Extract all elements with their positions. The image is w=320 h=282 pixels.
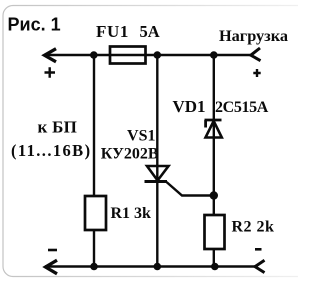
svg-text:2С515А: 2С515А <box>215 99 269 116</box>
node top-left junction <box>90 51 98 59</box>
label plus left <box>45 67 56 77</box>
svg-text:R1 3k: R1 3k <box>111 205 152 222</box>
svg-text:КУ202В: КУ202В <box>101 146 159 163</box>
node bottom-middle junction <box>154 263 162 271</box>
svg-text:Нагрузка: Нагрузка <box>219 26 288 45</box>
fuse FU1 <box>110 47 146 64</box>
zener diode VD1 symbol <box>205 120 222 138</box>
node gate junction <box>210 191 218 199</box>
svg-text:Рис. 1: Рис. 1 <box>8 15 61 35</box>
wire bottom bus <box>45 265 255 268</box>
node top-middle junction <box>154 51 162 59</box>
wire left branch upper <box>93 55 95 196</box>
wire gate lead <box>167 182 213 196</box>
wire right branch lower <box>213 249 215 267</box>
resistor R1 <box>85 196 106 230</box>
node top-right junction <box>210 51 218 59</box>
terminal fork plus output <box>251 48 261 61</box>
terminal fork minus output <box>255 260 265 272</box>
svg-text:(11...16В): (11...16В) <box>11 141 91 160</box>
label plus right <box>253 69 260 77</box>
wire middle branch <box>156 55 158 267</box>
wire top bus <box>44 54 251 57</box>
terminal arrow plus input <box>45 49 57 62</box>
svg-text:VD1: VD1 <box>173 97 206 116</box>
wire right branch upper <box>213 55 215 215</box>
svg-text:R2 2k: R2 2k <box>232 219 275 236</box>
wire left branch lower <box>93 230 95 267</box>
svg-text:FU1: FU1 <box>96 22 129 41</box>
terminal arrow minus input <box>46 260 58 274</box>
svg-text:VS1: VS1 <box>127 128 155 145</box>
node bottom-right junction <box>211 263 219 271</box>
thyristor VS1 symbol <box>145 166 169 182</box>
resistor R2 <box>205 215 225 249</box>
svg-text:к БП: к БП <box>38 118 78 137</box>
svg-text:5A: 5A <box>140 22 160 41</box>
node bottom-left junction <box>90 263 98 271</box>
label minus right <box>255 248 262 251</box>
label minus left <box>48 249 57 252</box>
